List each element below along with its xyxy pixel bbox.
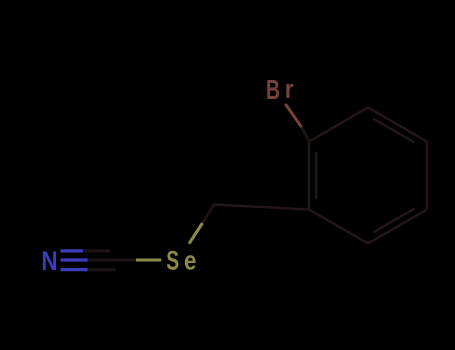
- ring edge C2-C3: [368, 108, 427, 142]
- bond Br-C1, carbon part (dark): [302, 127, 310, 141]
- ring edge C6-C1: [308, 142, 310, 210]
- bond Br-C1, bromine part (maroon): [285, 104, 301, 127]
- svg-text:B: B: [266, 75, 280, 106]
- ring edge C4-C5: [368, 210, 427, 244]
- svg-text:e: e: [184, 247, 196, 276]
- single bond C-Se, selenium part (olive): [136, 258, 161, 261]
- bond Se-CH2, carbon part (dark): [203, 205, 215, 224]
- benzene ring (dark carbon hexagon): [309, 108, 427, 244]
- svg-text:N: N: [41, 247, 57, 276]
- svg-text:r: r: [285, 76, 294, 105]
- triple bond N#C, nitrogen half (blue), three lines: [61, 251, 88, 270]
- ring edge C1-C2: [309, 108, 368, 142]
- bond CH2-ring C6 (dark carbon): [214, 205, 309, 210]
- bond Se-CH2, selenium part (olive): [189, 223, 203, 244]
- triple bond N#C, carbon half (dark), three lines: [83, 251, 116, 270]
- aromatic inner line C4-C5: [373, 209, 414, 233]
- ring edge C5-C6: [309, 210, 368, 244]
- aromatic inner line C2-C3: [373, 119, 414, 143]
- aromatic inner line C6-C1: [315, 152, 317, 200]
- svg-text:S: S: [166, 245, 179, 275]
- ring edge C3-C4: [426, 142, 428, 210]
- single bond C-Se, carbon part (dark): [116, 259, 137, 262]
